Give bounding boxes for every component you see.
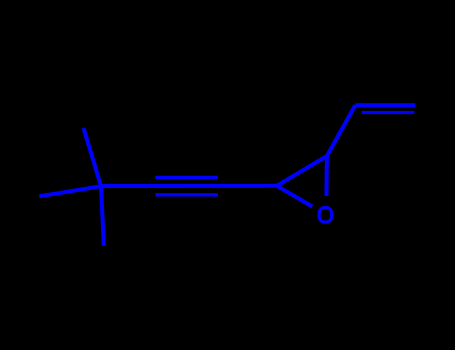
wire bond C(CH3)3 methyl down <box>101 186 104 246</box>
wire bond C(CH3)3 methyl left <box>39 186 101 196</box>
epoxide bond C3-O <box>324 156 329 196</box>
epoxide bond C2-C3 <box>277 156 327 186</box>
epoxide bond C2-O <box>277 186 313 207</box>
wire main chain bond tBu-C#C-epoxide <box>101 184 277 188</box>
wire bond C(CH3)3 methyl up <box>84 128 102 186</box>
vinyl double bond second stroke <box>362 111 415 114</box>
triple bond lower stroke <box>155 193 218 196</box>
vinyl bond C3-CH= <box>327 105 355 156</box>
atom label O (oxygen of epoxide) <box>319 208 331 222</box>
vinyl double bond main stroke <box>355 103 415 107</box>
triple bond upper stroke <box>155 176 218 179</box>
